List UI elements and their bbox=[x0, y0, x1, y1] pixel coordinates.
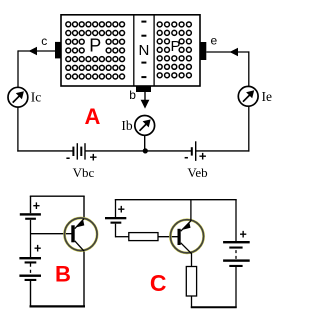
right rail lower bbox=[248, 106, 250, 151]
svg-text:+: + bbox=[118, 203, 125, 217]
svg-text:Vbc: Vbc bbox=[73, 165, 95, 180]
C left battery bbox=[105, 217, 126, 224]
C wire resistor to bottom bbox=[191, 296, 193, 308]
B battery2 dashed link bbox=[30, 264, 32, 275]
C collector wire down bbox=[191, 253, 193, 267]
transistor body box bbox=[61, 15, 200, 86]
region divider N|P bbox=[153, 15, 155, 86]
C left rail below battery bbox=[115, 224, 117, 238]
wire e to right rail bbox=[206, 51, 249, 53]
bottom wire segment 1 bbox=[17, 150, 73, 152]
resistor R2 vertical bbox=[186, 267, 196, 297]
svg-text:N: N bbox=[138, 42, 149, 59]
wire c to left rail bbox=[18, 50, 55, 52]
C right rail lower bbox=[235, 267, 237, 308]
electrons minus signs in N region bbox=[141, 21, 146, 79]
left rail lower bbox=[17, 107, 19, 152]
base contact b bbox=[136, 86, 151, 92]
B battery2 cell2 bbox=[19, 275, 41, 282]
svg-text:Ib: Ib bbox=[121, 118, 132, 133]
ammeter Ic bbox=[8, 87, 28, 107]
C right rail upper bbox=[235, 200, 237, 242]
svg-text:B: B bbox=[55, 261, 71, 286]
C emitter rail up bbox=[190, 200, 192, 221]
svg-text:b: b bbox=[129, 88, 136, 102]
svg-text:c: c bbox=[41, 34, 47, 48]
region divider P|N bbox=[133, 15, 135, 86]
C top wire bbox=[115, 199, 237, 201]
svg-text:+: + bbox=[33, 199, 40, 213]
battery Veb bbox=[191, 141, 197, 161]
holes in right P region bbox=[157, 22, 191, 78]
holes in left P region bbox=[66, 22, 125, 79]
svg-text:+: + bbox=[239, 227, 246, 241]
current arrow on c wire bbox=[29, 47, 37, 56]
bottom wire segment 2 bbox=[85, 150, 192, 152]
C left rail above battery bbox=[115, 200, 117, 218]
current arrow on e wire bbox=[230, 48, 238, 57]
B bottom wire bbox=[30, 305, 86, 307]
junction node bbox=[143, 148, 148, 153]
left rail upper bbox=[17, 50, 19, 87]
svg-text:Ic: Ic bbox=[31, 90, 42, 105]
C bottom wire bbox=[191, 306, 237, 308]
resistor R1 horizontal bbox=[129, 233, 158, 241]
battery Vbc bbox=[72, 143, 85, 159]
B left rail between bbox=[30, 220, 32, 257]
ammeter Ib bbox=[135, 116, 155, 136]
B left rail lower bbox=[30, 281, 32, 307]
B top wire bbox=[30, 195, 85, 197]
svg-text:P: P bbox=[170, 38, 180, 55]
bottom wire segment 3 bbox=[196, 150, 250, 152]
svg-text:-: - bbox=[184, 149, 188, 164]
svg-text:Ie: Ie bbox=[262, 89, 273, 104]
svg-text:C: C bbox=[150, 270, 167, 296]
svg-text:A: A bbox=[85, 104, 101, 129]
right rail upper bbox=[248, 51, 250, 86]
B base wire bbox=[31, 233, 72, 235]
base arrow wire bbox=[144, 92, 146, 103]
wire Ib meter to bottom rail bbox=[144, 135, 146, 151]
B battery2 cell1 bbox=[19, 257, 41, 264]
svg-text:e: e bbox=[210, 33, 217, 47]
B battery1 bbox=[20, 213, 41, 220]
transistor Q in B bbox=[65, 218, 98, 251]
B left rail above battery1 bbox=[30, 196, 32, 213]
svg-text:+: + bbox=[199, 149, 207, 164]
C right battery cell2 bbox=[223, 259, 250, 267]
svg-text:P: P bbox=[89, 35, 101, 55]
B right rail upper bbox=[83, 196, 85, 219]
collector contact c bbox=[55, 42, 61, 59]
svg-text:-: - bbox=[66, 149, 70, 164]
C right battery cell1 bbox=[223, 241, 250, 249]
B right rail lower bbox=[83, 251, 85, 307]
C right battery dashed link bbox=[235, 250, 237, 259]
C wire resistor to base bbox=[158, 236, 178, 238]
svg-text:+: + bbox=[90, 150, 98, 165]
svg-text:+: + bbox=[34, 242, 41, 256]
base current arrowhead bbox=[141, 100, 150, 109]
C wire battery to resistor bbox=[116, 236, 129, 238]
transistor Q in C bbox=[170, 220, 203, 254]
emitter contact e bbox=[200, 42, 207, 60]
svg-text:Veb: Veb bbox=[187, 165, 207, 180]
ammeter Ie bbox=[238, 86, 258, 106]
